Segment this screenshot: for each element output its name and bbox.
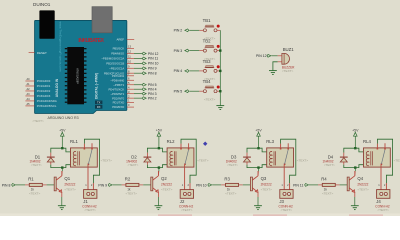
wire pin 3 to terminal	[134, 93, 142, 95]
terminal PIN 8	[142, 72, 146, 75]
svg-text:PIN 11: PIN 11	[293, 183, 303, 187]
svg-text:2N2222: 2N2222	[161, 183, 172, 187]
svg-text:PC2/ADC2: PC2/ADC2	[37, 89, 51, 93]
svg-text:+5V: +5V	[255, 129, 262, 133]
svg-text:<TEXT>: <TEXT>	[281, 208, 293, 212]
svg-text:<TEXT>: <TEXT>	[282, 69, 294, 73]
connector J2 CONN-H2	[180, 190, 193, 199]
svg-text:Q3: Q3	[261, 176, 267, 181]
pin 6 ~PD6/AIN0	[127, 79, 134, 81]
svg-text:TX: TX	[97, 101, 101, 105]
wire node to Q3 collector	[258, 168, 260, 172]
svg-text:RX: RX	[97, 105, 101, 109]
junction node coil top	[354, 147, 356, 149]
wire PIN 8 to R1	[16, 184, 25, 186]
pin 7 PD7/AIN1	[127, 75, 134, 77]
svg-text:R3: R3	[224, 177, 230, 182]
svg-text:<TEXT>: <TEXT>	[64, 188, 76, 192]
connector J3 CONN-H2	[280, 190, 293, 199]
diode D2 1N4002	[146, 153, 148, 158]
wire pin 12 to terminal	[134, 53, 142, 55]
svg-text:+5V: +5V	[156, 129, 163, 133]
wire pin 2 to terminal	[134, 97, 142, 99]
wire PIN 9 to R2	[113, 184, 122, 186]
svg-text:Q1: Q1	[64, 176, 70, 181]
svg-text:2N2222: 2N2222	[357, 183, 368, 187]
wire node to coil bottom pin	[355, 165, 363, 168]
wire Q3 emitter to ground	[257, 197, 259, 206]
wire node to coil bottom pin	[159, 165, 167, 168]
wire buzzer to ground	[273, 62, 278, 71]
svg-text:RL1: RL1	[70, 139, 78, 144]
svg-text:PIN 12: PIN 12	[148, 52, 159, 56]
junction node coil bottom	[61, 166, 63, 168]
pin 3 ~PD3/INT1	[127, 93, 134, 95]
svg-text:PIN 12: PIN 12	[256, 54, 267, 58]
svg-text:<TEXT>: <TEXT>	[204, 98, 216, 102]
wire Q4 emitter to ground	[354, 197, 356, 206]
svg-text:2N2222: 2N2222	[261, 183, 272, 187]
pin AREF	[127, 38, 134, 40]
wire D3 anode to coil bottom node	[247, 165, 259, 168]
svg-text:<TEXT>: <TEXT>	[227, 163, 238, 167]
svg-text:PB2/SS/OC1B: PB2/SS/OC1B	[106, 61, 124, 65]
svg-text:~PB3/MOSI/OC2A: ~PB3/MOSI/OC2A	[101, 57, 124, 61]
wire node to coil top pin	[259, 148, 267, 152]
wire D1 anode to coil bottom node	[51, 165, 63, 168]
transistor Q1 2N2222	[54, 177, 56, 191]
wire to D3 cathode	[247, 148, 259, 152]
svg-text:10: 10	[128, 59, 131, 63]
svg-text:<TEXT>: <TEXT>	[225, 191, 237, 195]
connector J1 CONN-H2	[84, 190, 97, 199]
svg-text:PIN 4: PIN 4	[148, 88, 157, 92]
svg-text:<TEXT>: <TEXT>	[261, 188, 273, 192]
svg-text:PD7/AIN1: PD7/AIN1	[112, 74, 125, 78]
wire node to coil bottom pin	[62, 165, 70, 168]
svg-text:~PD5/T1: ~PD5/T1	[113, 83, 124, 87]
svg-text:<TEXT>: <TEXT>	[181, 208, 193, 212]
wire terminal to TB4	[189, 90, 199, 92]
wire RL2 pole loop to J2	[181, 139, 196, 183]
wire TB4 to bus	[217, 90, 220, 92]
svg-text:PIN 4: PIN 4	[174, 69, 183, 73]
wire node to coil top pin	[159, 148, 167, 152]
svg-text:PIN 2: PIN 2	[148, 96, 157, 100]
svg-text:DUINO1: DUINO1	[33, 2, 51, 7]
wire node to coil bottom pin	[259, 165, 267, 168]
wire D4 anode to coil bottom node	[344, 165, 356, 168]
svg-text:DIGITAL (~PWM): DIGITAL (~PWM)	[94, 73, 98, 99]
junction node coil bottom	[158, 166, 160, 168]
junction node coil bottom	[257, 166, 259, 168]
wire RL1 pole loop to J1	[84, 139, 99, 183]
svg-text:R2: R2	[125, 177, 131, 182]
wire TB3 to bus	[217, 70, 220, 72]
terminal PIN 3	[142, 92, 146, 95]
svg-text:PC4/ADC4/SDA: PC4/ADC4/SDA	[37, 99, 57, 103]
svg-text:Q2: Q2	[161, 176, 167, 181]
svg-text:PIN 5: PIN 5	[174, 90, 183, 94]
svg-text:TB1: TB1	[203, 18, 211, 23]
svg-text:PIN 3: PIN 3	[174, 49, 183, 53]
svg-text:TB3: TB3	[203, 59, 211, 64]
junction node coil top	[158, 147, 160, 149]
mcu ATMEGA328P chip	[65, 47, 87, 104]
pin A3 PC3/ADC3	[25, 95, 34, 97]
pin A2 PC2/ADC2	[25, 90, 34, 92]
svg-text:<TEXT>: <TEXT>	[297, 158, 309, 162]
svg-text:PD2/INT0: PD2/INT0	[112, 96, 125, 100]
junction bus TB3	[219, 70, 221, 72]
terminal PIN 9	[142, 67, 146, 70]
svg-text:<TEXT>: <TEXT>	[32, 119, 44, 123]
pin A4 PC4/ADC4/SDA	[25, 100, 34, 102]
wire R2 to Q2 base	[139, 184, 143, 186]
actuator dot TB3	[217, 65, 220, 68]
svg-text:~PD3/INT1: ~PD3/INT1	[111, 92, 125, 96]
svg-text:~PB1/OC1A: ~PB1/OC1A	[109, 66, 124, 70]
wire pin 9 to terminal	[134, 67, 142, 69]
ground buzzer	[269, 70, 277, 72]
svg-text:<TEXT>: <TEXT>	[197, 158, 209, 162]
svg-text:PB5/SCK: PB5/SCK	[113, 47, 125, 51]
svg-text:PB4/MISO: PB4/MISO	[111, 52, 124, 56]
svg-text:<TEXT>: <TEXT>	[161, 188, 173, 192]
arduino DUINO1 board	[35, 21, 127, 114]
wire TB1 to bus	[217, 29, 220, 31]
wire node to coil top pin	[355, 148, 363, 152]
diode D3 1N4002	[246, 153, 248, 158]
actuator dot TB1	[217, 25, 220, 28]
ground Q3 emitter	[254, 205, 262, 207]
connector J4 CONN-H2	[377, 190, 390, 199]
wire pin 8 to terminal	[134, 72, 142, 74]
diode D4 1N4002	[343, 153, 345, 158]
wire +5V down	[61, 136, 63, 148]
svg-text:PIN 5: PIN 5	[148, 83, 157, 87]
svg-text:R1: R1	[28, 177, 34, 182]
transistor Q2 2N2222	[151, 177, 153, 191]
svg-text:PD1/TXD: PD1/TXD	[113, 101, 125, 105]
svg-text:AREF: AREF	[116, 38, 124, 42]
wire RL3 NO contact to J3	[283, 165, 285, 190]
wire to D2 cathode	[147, 148, 159, 152]
wire +5V down	[258, 136, 260, 148]
svg-text:RESET: RESET	[37, 51, 47, 55]
svg-text:R4: R4	[321, 177, 327, 182]
svg-text:RL4: RL4	[363, 139, 371, 144]
ground buttons	[216, 105, 224, 107]
wire +5V down	[158, 136, 160, 148]
terminal PIN 11	[142, 57, 146, 60]
pin 5 ~PD5/T1	[127, 84, 134, 86]
pin A5 PC5/ADC5/SCL	[25, 105, 34, 107]
wire node to Q2 collector	[158, 168, 160, 172]
pin 0 PD0/RXD	[127, 106, 134, 108]
svg-text:<TEXT>: <TEXT>	[31, 163, 42, 167]
svg-text:PIN 11: PIN 11	[148, 57, 158, 61]
ground Q2 emitter	[155, 205, 163, 207]
svg-text:PIN 3: PIN 3	[148, 92, 157, 96]
terminal PIN 2	[142, 97, 146, 100]
wire node to Q1 collector	[61, 168, 63, 172]
terminal PIN 5	[142, 83, 146, 86]
wire to D1 cathode	[51, 148, 63, 152]
wire Q2 emitter to ground	[157, 197, 159, 206]
actuator dot TB2	[217, 45, 220, 48]
svg-text:PC0/ADC0: PC0/ADC0	[37, 79, 51, 83]
pin 12 PB4/MISO	[127, 53, 134, 55]
pin 8 PB0/ICP1/CLKO	[127, 72, 134, 74]
wire terminal to TB2	[189, 50, 199, 52]
svg-text:PIN 10: PIN 10	[196, 183, 207, 187]
ground Q4 emitter	[351, 205, 359, 207]
pin 1 PD1/TXD	[127, 102, 134, 104]
svg-text:<TEXT>: <TEXT>	[394, 158, 400, 162]
svg-text:ATMEGA328P: ATMEGA328P	[75, 68, 78, 84]
wire node to coil top pin	[62, 148, 70, 152]
wire terminal to buzzer	[271, 55, 277, 57]
svg-text:Q4: Q4	[357, 176, 363, 181]
svg-text:TB4: TB4	[203, 79, 211, 84]
wire Q1 emitter to ground	[61, 197, 63, 206]
svg-text:+5V: +5V	[352, 129, 359, 133]
wire PIN 11 to R4	[309, 184, 318, 186]
wire R4 to Q4 base	[335, 184, 339, 186]
wire R1 to Q1 base	[42, 184, 46, 186]
svg-text:ARDUINO UNO R3: ARDUINO UNO R3	[48, 116, 79, 120]
pin RESET	[29, 52, 35, 54]
wire D2 anode to coil bottom node	[147, 165, 159, 168]
wire +5V down	[354, 136, 356, 148]
svg-text:<TEXT>: <TEXT>	[377, 208, 389, 212]
svg-text:2N2222: 2N2222	[64, 183, 75, 187]
wire pin 11 to terminal	[134, 57, 142, 59]
svg-text:<TEXT>: <TEXT>	[101, 158, 113, 162]
svg-text:12: 12	[128, 50, 131, 54]
wire RL4 NO contact to J4	[380, 165, 382, 190]
svg-text:RL2: RL2	[167, 139, 175, 144]
terminal PIN 12	[142, 52, 146, 55]
pin A1 PC1/ADC1	[25, 85, 34, 87]
wire RL4 pole loop to J4	[377, 139, 392, 183]
wire TB2 to bus	[217, 50, 220, 52]
svg-text:<TEXT>: <TEXT>	[322, 191, 334, 195]
pin 2 PD2/INT0	[127, 97, 134, 99]
terminal PIN 4	[142, 88, 146, 91]
svg-text:<TEXT>: <TEXT>	[29, 191, 41, 195]
marker origin diamond	[203, 142, 207, 146]
svg-text:INKUBATEX: INKUBATEX	[78, 38, 104, 44]
wire terminal to TB3	[189, 70, 199, 72]
svg-text:ANALOG IN: ANALOG IN	[55, 78, 59, 97]
svg-text:<TEXT>: <TEXT>	[126, 191, 138, 195]
usb connector	[92, 7, 112, 33]
junction node coil top	[257, 147, 259, 149]
wire RL1 NO contact to J1	[87, 165, 89, 190]
wire pin 4 to terminal	[134, 88, 142, 90]
pin A0 PC0/ADC0	[25, 80, 34, 82]
svg-text:PC1/ADC1: PC1/ADC1	[37, 84, 51, 88]
diode D1 1N4002	[50, 153, 52, 158]
junction node coil bottom	[354, 166, 356, 168]
svg-text:RL3: RL3	[266, 139, 274, 144]
wire PIN 10 to R3	[212, 184, 221, 186]
wire node to Q4 collector	[354, 168, 356, 172]
svg-text:PD4/T0/XCK: PD4/T0/XCK	[108, 87, 124, 91]
wire pin 5 to terminal	[134, 84, 142, 86]
svg-text:PIN 2: PIN 2	[174, 29, 183, 33]
wire RL3 pole loop to J3	[281, 139, 296, 183]
power jack	[39, 10, 54, 38]
svg-text:PIN 9: PIN 9	[98, 183, 107, 187]
svg-text:PIN 9: PIN 9	[148, 67, 157, 71]
svg-text:PC3/ADC3: PC3/ADC3	[37, 94, 51, 98]
svg-text:www.TheEngineeringProjects.com: www.TheEngineeringProjects.com	[59, 22, 63, 73]
svg-text:PD0/RXD: PD0/RXD	[112, 105, 124, 109]
svg-text:PIN 10: PIN 10	[148, 62, 159, 66]
svg-text:BUZ1: BUZ1	[283, 47, 295, 52]
svg-text:PIN 8: PIN 8	[148, 72, 157, 76]
svg-text:<TEXT>: <TEXT>	[84, 208, 96, 212]
wire RL2 NO contact to J2	[184, 165, 186, 190]
svg-text:+5V: +5V	[59, 129, 66, 133]
wire R3 to Q3 base	[239, 184, 243, 186]
footer artifacts	[158, 214, 192, 216]
junction bus TB4	[219, 90, 221, 92]
svg-text:PC5/ADC5/SCL: PC5/ADC5/SCL	[37, 104, 57, 108]
terminal PIN 10	[142, 62, 146, 65]
svg-text:<TEXT>: <TEXT>	[128, 163, 139, 167]
junction node coil top	[61, 147, 63, 149]
wire terminal to TB1	[189, 29, 199, 31]
pin 10 PB2/SS/OC1B	[127, 62, 134, 64]
svg-text:13: 13	[128, 45, 131, 49]
pin 9 ~PB1/OC1A	[127, 67, 134, 69]
ground Q1 emitter	[58, 205, 66, 207]
transistor Q3 2N2222	[250, 177, 252, 191]
actuator dot TB4	[217, 86, 220, 89]
wire button bus	[219, 30, 221, 105]
pin 11 ~PB3/MOSI/OC2A	[127, 57, 134, 59]
svg-text:<TEXT>: <TEXT>	[324, 163, 335, 167]
pin 13 PB5/SCK	[127, 48, 134, 50]
svg-text:<TEXT>: <TEXT>	[357, 188, 369, 192]
pin 4 PD4/T0/XCK	[127, 88, 134, 90]
svg-text:~PD6/AIN0: ~PD6/AIN0	[110, 78, 124, 82]
transistor Q4 2N2222	[347, 177, 349, 191]
wire to D4 cathode	[344, 148, 356, 152]
svg-text:TB2: TB2	[203, 39, 211, 44]
label RX	[95, 105, 102, 109]
junction bus TB2	[219, 49, 221, 51]
label TX	[95, 101, 102, 105]
svg-text:PIN 8: PIN 8	[2, 183, 11, 187]
wire pin 10 to terminal	[134, 62, 142, 64]
